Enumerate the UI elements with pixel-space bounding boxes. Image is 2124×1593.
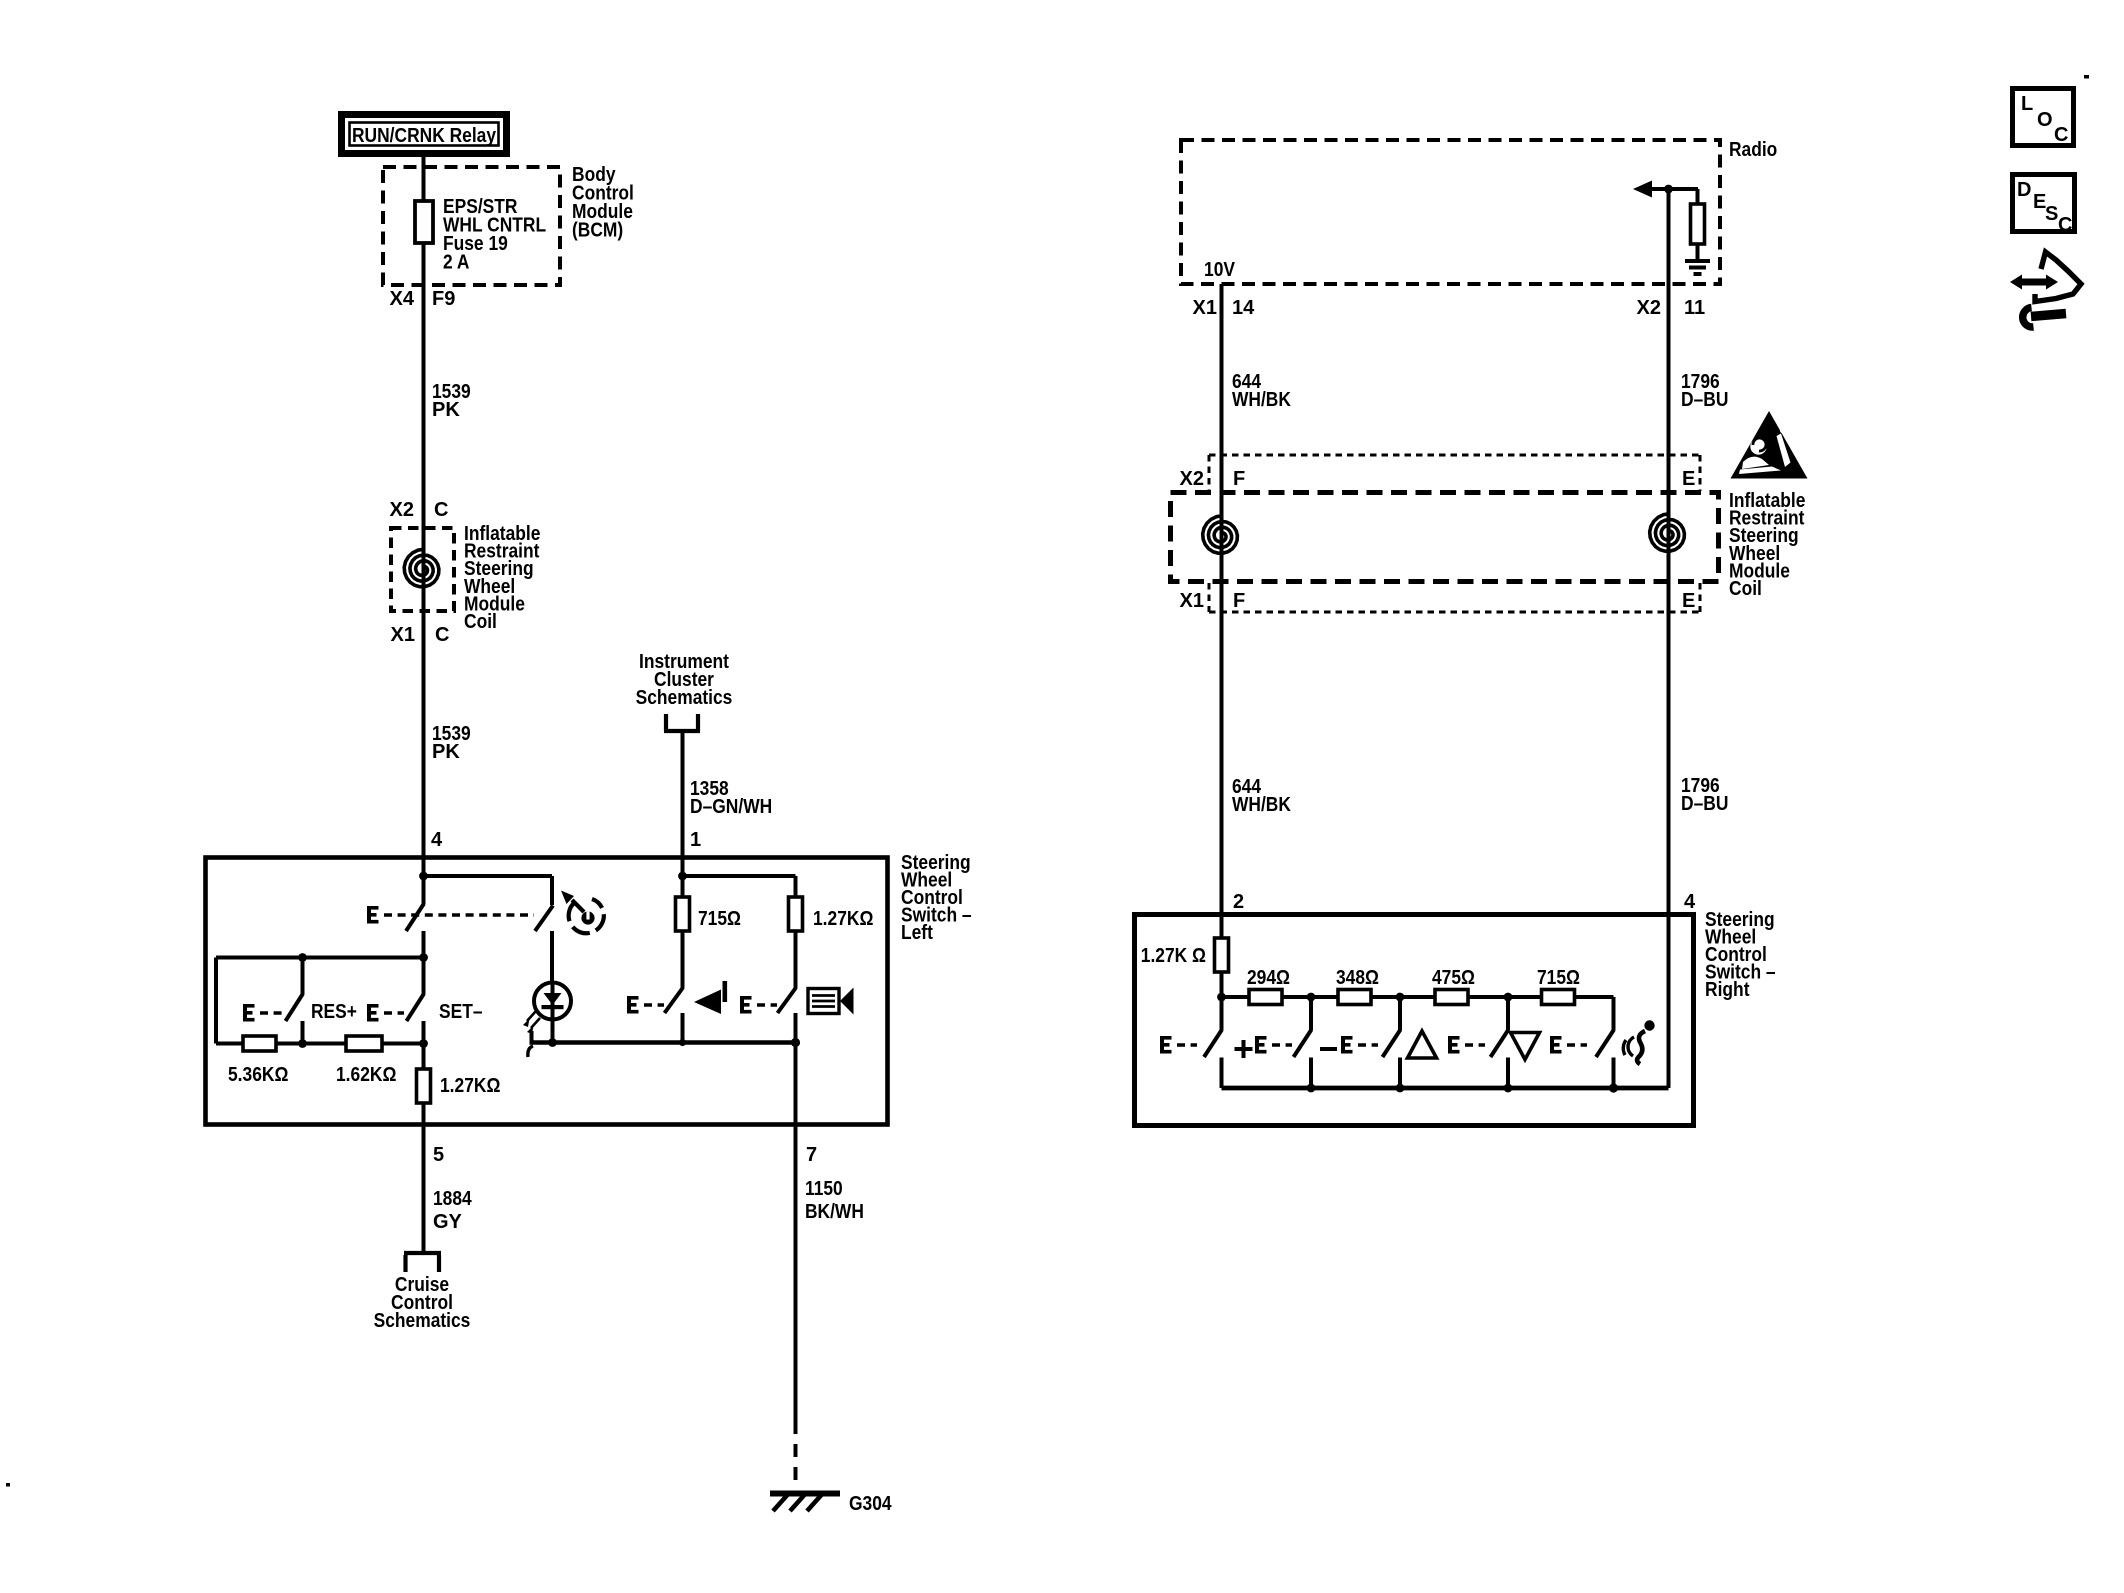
svg-text:Radio: Radio xyxy=(1729,139,1777,161)
svg-text:4: 4 xyxy=(1684,891,1696,913)
svg-text:1: 1 xyxy=(690,829,701,851)
svg-text:BK/WH: BK/WH xyxy=(805,1201,864,1223)
svg-text:O: O xyxy=(2037,109,2053,131)
svg-text:D: D xyxy=(2017,179,2031,201)
svg-text:1.27KΩ: 1.27KΩ xyxy=(440,1075,500,1097)
svg-text:2: 2 xyxy=(1233,891,1244,913)
svg-text:14: 14 xyxy=(1232,297,1255,319)
svg-text:715Ω: 715Ω xyxy=(1537,967,1580,989)
svg-text:1.27K Ω: 1.27K Ω xyxy=(1141,945,1206,967)
svg-text:Schematics: Schematics xyxy=(374,1310,471,1332)
svg-text:294Ω: 294Ω xyxy=(1247,967,1290,989)
svg-text:PK: PK xyxy=(432,741,460,763)
svg-text:Coil: Coil xyxy=(1729,578,1762,600)
svg-text:F9: F9 xyxy=(432,288,455,310)
svg-text:C: C xyxy=(435,624,449,646)
svg-text:1884: 1884 xyxy=(433,1188,472,1210)
svg-text:Left: Left xyxy=(901,922,933,944)
svg-text:D–GN/WH: D–GN/WH xyxy=(690,796,772,818)
svg-text:X2: X2 xyxy=(1637,297,1661,319)
svg-text:348Ω: 348Ω xyxy=(1336,967,1379,989)
svg-text:X1: X1 xyxy=(391,624,415,646)
svg-text:RES+: RES+ xyxy=(311,1001,357,1023)
svg-text:5: 5 xyxy=(433,1144,444,1166)
svg-text:C: C xyxy=(2058,214,2072,236)
svg-text:4: 4 xyxy=(431,829,443,851)
svg-text:L: L xyxy=(2021,93,2033,115)
svg-text:C: C xyxy=(434,499,448,521)
svg-text:E: E xyxy=(1682,468,1695,490)
svg-text:X1: X1 xyxy=(1180,590,1204,612)
svg-text:WH/BK: WH/BK xyxy=(1232,794,1291,816)
svg-text:715Ω: 715Ω xyxy=(698,908,741,930)
svg-text:1.62KΩ: 1.62KΩ xyxy=(336,1064,396,1086)
svg-text:475Ω: 475Ω xyxy=(1432,967,1475,989)
svg-text:F: F xyxy=(1233,590,1245,612)
svg-text:GY: GY xyxy=(433,1211,463,1233)
svg-text:5.36KΩ: 5.36KΩ xyxy=(228,1064,288,1086)
svg-text:11: 11 xyxy=(1684,297,1705,319)
svg-text:F: F xyxy=(1233,468,1245,490)
svg-text:Schematics: Schematics xyxy=(636,687,733,709)
svg-text:1150: 1150 xyxy=(805,1178,843,1200)
svg-text:G304: G304 xyxy=(849,1493,892,1515)
svg-text:C: C xyxy=(2054,124,2068,146)
svg-text:WH/BK: WH/BK xyxy=(1232,389,1291,411)
svg-text:1.27KΩ: 1.27KΩ xyxy=(813,908,873,930)
svg-text:X1: X1 xyxy=(1193,297,1217,319)
svg-text:E: E xyxy=(1682,590,1695,612)
svg-text:(BCM): (BCM) xyxy=(572,220,623,242)
svg-text:2 A: 2 A xyxy=(443,252,469,274)
svg-text:10V: 10V xyxy=(1204,259,1236,281)
svg-text:Coil: Coil xyxy=(464,611,497,633)
svg-text:Right: Right xyxy=(1705,979,1750,1001)
svg-text:X2: X2 xyxy=(1180,468,1204,490)
svg-text:S: S xyxy=(2045,203,2058,225)
svg-text:X2: X2 xyxy=(390,499,414,521)
svg-text:PK: PK xyxy=(432,399,460,421)
svg-text:D–BU: D–BU xyxy=(1681,389,1728,411)
svg-text:SET–: SET– xyxy=(439,1001,483,1023)
svg-text:7: 7 xyxy=(806,1144,817,1166)
svg-text:RUN/CRNK Relay: RUN/CRNK Relay xyxy=(352,125,497,147)
svg-text:X4: X4 xyxy=(390,288,415,310)
svg-text:D–BU: D–BU xyxy=(1681,793,1728,815)
